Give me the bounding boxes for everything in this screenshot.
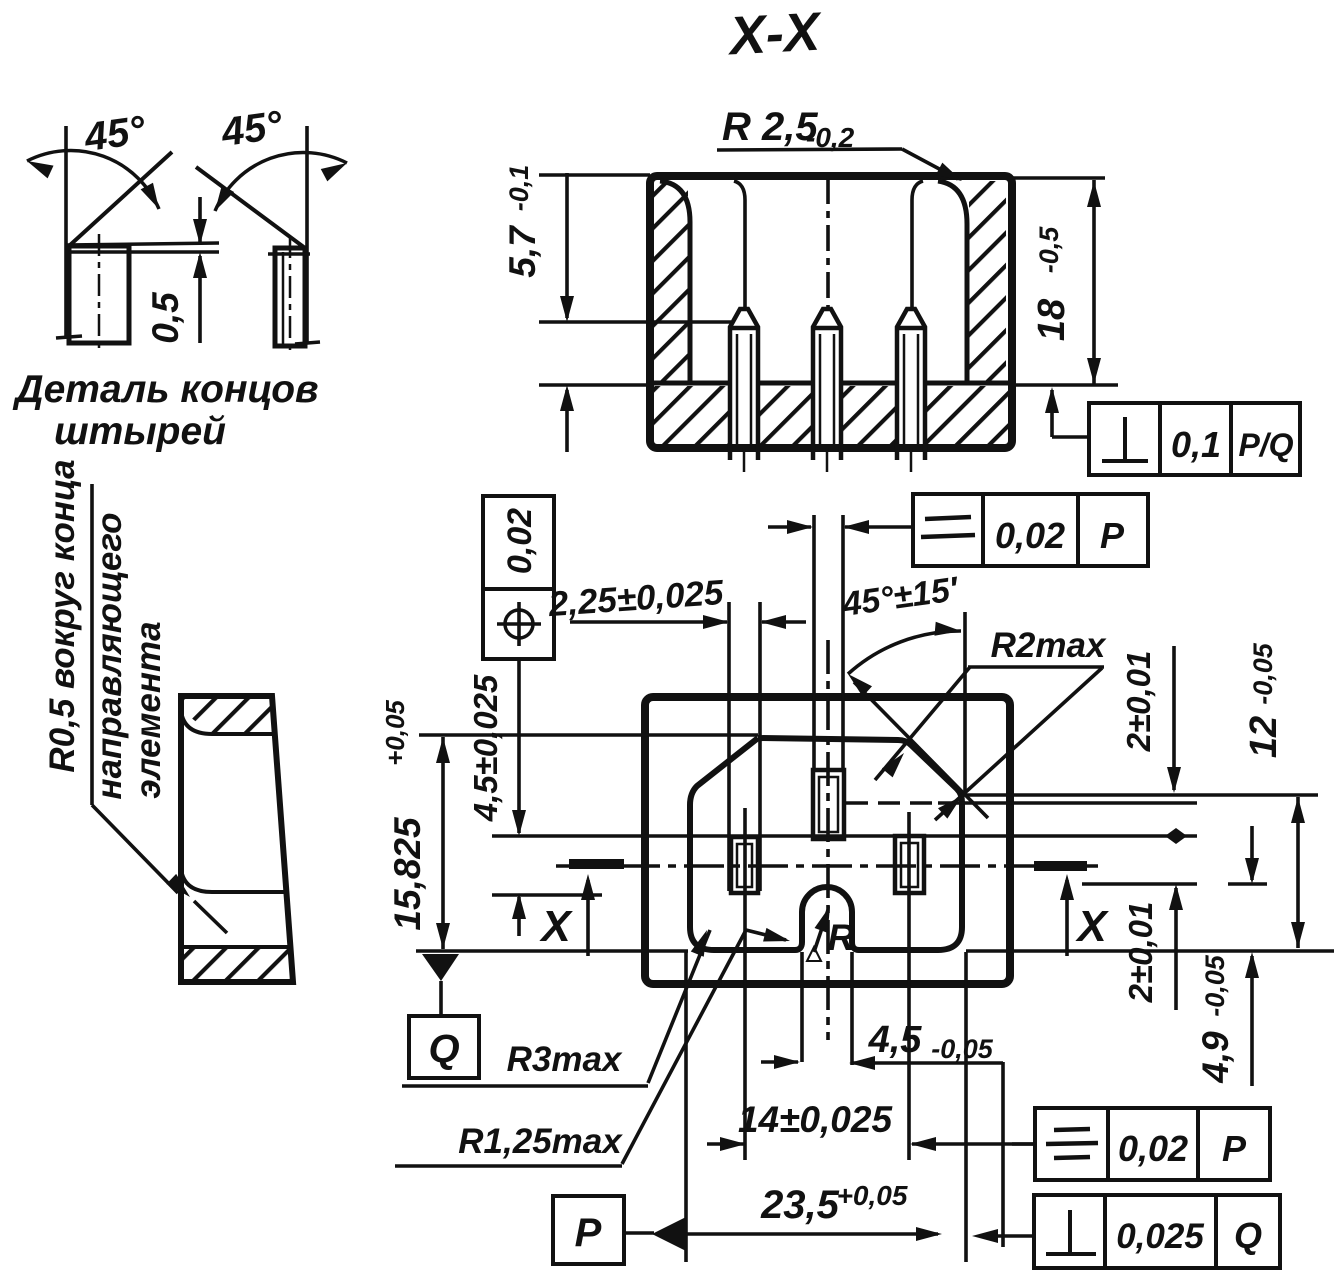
svg-text:23,5: 23,5 — [760, 1183, 840, 1227]
extension h corner level — [962, 793, 1318, 797]
pin 3 axis below — [910, 448, 913, 472]
extension h cavity bottom right — [966, 949, 1334, 953]
pin 2 white body — [813, 308, 842, 462]
leader shelf — [90, 484, 94, 805]
left chamfer line — [69, 152, 172, 246]
plan cavity outline — [690, 738, 962, 950]
svg-text:-0,05: -0,05 — [1248, 642, 1278, 705]
extension h cavity top — [419, 733, 758, 737]
R2max leader 2 — [935, 668, 1102, 820]
extension v chamfer corner — [963, 612, 967, 792]
extension v outer right below — [1001, 1062, 1005, 1247]
vertical axis dash-dot — [826, 640, 830, 1040]
section X-X housing hatch left wall — [654, 181, 688, 381]
svg-text:0,02: 0,02 — [501, 508, 539, 574]
svg-text:0,1: 0,1 — [1171, 424, 1221, 465]
label R2,5-0,2 — [717, 105, 965, 187]
svg-text:Q: Q — [1234, 1215, 1262, 1256]
dimension 18-0,5 — [1031, 180, 1101, 385]
pin 3 (section) — [897, 309, 925, 460]
svg-text:4,5: 4,5 — [868, 1019, 923, 1061]
svg-text:0,025: 0,025 — [1116, 1217, 1204, 1256]
extension v pin1 right — [758, 602, 762, 891]
svg-text:-0,05: -0,05 — [1200, 954, 1230, 1017]
pin 1 axis below — [743, 448, 746, 472]
dimension pin2 width to frame — [768, 520, 913, 534]
svg-text:14±0,025: 14±0,025 — [738, 1099, 893, 1140]
extension v pin1 left — [727, 602, 731, 891]
svg-text:4,5±0,025: 4,5±0,025 — [467, 674, 504, 822]
middle line with R0,5 arc — [181, 869, 287, 892]
bottom tick right extension — [295, 342, 320, 344]
svg-text:X-X: X-X — [725, 2, 824, 67]
dimension 4,9-0,05 — [1195, 826, 1259, 1086]
svg-text:+0,05: +0,05 — [380, 700, 410, 766]
section housing outline — [650, 176, 1012, 448]
datum P box — [553, 1196, 624, 1264]
datum Q box — [409, 1016, 479, 1078]
left pin extension line — [64, 126, 68, 336]
diamond marker — [1165, 828, 1187, 844]
guiding element hatch top band — [184, 699, 273, 733]
svg-text:направляющего: направляющего — [90, 512, 129, 799]
svg-text:R2max: R2max — [991, 626, 1107, 665]
svg-text:2±0,01: 2±0,01 — [1120, 651, 1157, 753]
extension v pin1 axis below — [743, 808, 747, 1160]
angle dimension 45 +-15 — [848, 631, 961, 674]
pin 2 plan — [813, 770, 844, 839]
svg-text:P: P — [1222, 1128, 1247, 1169]
extension h bump top right — [1082, 882, 1197, 886]
svg-text:R: R — [828, 917, 855, 958]
bottom tick left extension — [56, 336, 82, 338]
right pin extension line — [305, 126, 309, 343]
svg-text:Q: Q — [428, 1027, 459, 1071]
plan outer body — [645, 697, 1010, 984]
right pin top face line — [268, 252, 310, 256]
frame perpendicular 0,025 Q bottom — [972, 1195, 1280, 1268]
extension v cavity right below — [964, 952, 968, 1262]
svg-text:X: X — [538, 902, 573, 951]
pin tip level line — [539, 320, 731, 324]
left pin body — [69, 246, 129, 343]
svg-text:элемента: элемента — [129, 621, 168, 798]
extension v cavity left below — [684, 952, 688, 1262]
svg-text:0,5: 0,5 — [145, 291, 186, 344]
section mark X right — [1034, 861, 1087, 871]
left 45 arc — [27, 151, 159, 209]
extension v pin2 left — [812, 515, 816, 772]
dimension 23,5 — [686, 1180, 942, 1241]
pin 2 (section) — [813, 309, 841, 460]
top band lower line with R0,5 arc — [181, 711, 274, 734]
section top edge extension right — [1012, 176, 1105, 180]
extension h bump top left — [492, 893, 602, 897]
tolerance frame parallel 0,02 P top — [913, 494, 1148, 566]
datum Q triangle — [422, 954, 459, 981]
R2max shelf — [968, 665, 1104, 669]
section left wall inner edge — [660, 181, 690, 383]
position tolerance frame 0,02 — [483, 496, 554, 659]
extension v pin2 right — [841, 515, 845, 772]
svg-text:-0,1: -0,1 — [504, 165, 534, 212]
guiding element outline — [181, 696, 293, 982]
dashed line corner level inner — [846, 801, 934, 805]
extension v pin3 axis below — [907, 812, 911, 1160]
section floor line — [652, 381, 1010, 386]
svg-text:P: P — [1100, 515, 1125, 556]
pin top face lines 0,5 — [66, 243, 219, 245]
dimension 2+-0,01 lower — [1122, 884, 1183, 1010]
svg-text:2±0,01: 2±0,01 — [1122, 902, 1159, 1004]
guide slot line right — [912, 181, 923, 308]
svg-text:R 2,5: R 2,5 — [722, 105, 818, 149]
dimension 12-0,05 — [1243, 642, 1305, 948]
R2max leader 1 — [875, 667, 970, 780]
extension h cavity bottom left — [416, 949, 688, 953]
extension h pin top level — [492, 834, 1197, 838]
svg-text:18: 18 — [1031, 298, 1073, 341]
dimension 0,5 — [145, 197, 207, 344]
right pin axis — [289, 236, 292, 354]
svg-text:0,02: 0,02 — [1118, 1128, 1188, 1169]
frame parallel 0,02 P bottom — [1012, 1108, 1270, 1180]
horizontal axis dash-dot — [556, 864, 1098, 868]
pin 1 (section) — [730, 309, 758, 460]
pin 2 axis below — [826, 448, 829, 472]
svg-text:Деталь концов: Деталь концов — [12, 368, 318, 411]
svg-text:12: 12 — [1243, 716, 1285, 758]
dimension 2+-0,01 upper — [1120, 646, 1181, 793]
right pin body — [275, 248, 305, 346]
svg-text:-0,05: -0,05 — [931, 1034, 994, 1064]
datum P triangle — [652, 1217, 686, 1251]
svg-text:P: P — [575, 1211, 602, 1255]
bottom band top line — [181, 945, 291, 949]
section X-X housing hatch floor — [654, 386, 1008, 444]
svg-text:R3max: R3max — [507, 1040, 623, 1079]
section X-X housing hatch right wall — [969, 181, 1006, 381]
section floor extension right — [1010, 383, 1118, 387]
pin 1 plan — [731, 837, 758, 893]
svg-text:45°: 45° — [81, 108, 149, 160]
guide slot line left — [734, 181, 745, 308]
svg-text:P/Q: P/Q — [1238, 427, 1293, 463]
svg-text:0,02: 0,02 — [995, 515, 1065, 556]
pin 3 plan — [895, 836, 924, 893]
svg-text:5,7: 5,7 — [502, 224, 543, 278]
extension v bump left below — [800, 952, 804, 1062]
dimension 15,825 — [380, 700, 450, 949]
center axis pin2 upper — [826, 178, 830, 308]
right 45 arc — [215, 153, 347, 211]
pin 1 white body — [730, 308, 759, 462]
dimension 14 — [707, 1099, 1035, 1151]
svg-text:45°: 45° — [218, 103, 286, 155]
section top edge extension left — [539, 173, 650, 177]
dimension 4,5 pins length — [467, 659, 526, 936]
chamfer construction line — [854, 682, 988, 818]
section right wall inner edge — [938, 181, 967, 383]
pin 3 white body — [897, 308, 926, 462]
svg-text:R1,25max: R1,25max — [458, 1122, 623, 1161]
right chamfer line — [196, 167, 305, 248]
label R at bump — [807, 947, 821, 961]
svg-text:X: X — [1074, 902, 1109, 951]
dimension 4,5-0,05 bump — [761, 1019, 1003, 1070]
pointer arrow inside — [194, 901, 227, 933]
section floor extension left — [539, 383, 652, 387]
dimension 2,25 — [546, 573, 806, 629]
left pin axis — [98, 234, 101, 351]
svg-text:-0,5: -0,5 — [1034, 226, 1064, 274]
svg-text:4,9: 4,9 — [1195, 1031, 1236, 1084]
dimension 5,7-0,1 — [502, 165, 574, 452]
extension v bump right below — [850, 952, 854, 1065]
tolerance frame perpendicularity 0,1 P/Q — [1045, 387, 1300, 475]
svg-text:R0,5 вокруг конца: R0,5 вокруг конца — [43, 459, 82, 772]
extension h corner level second — [938, 801, 1197, 805]
svg-text:15,825: 15,825 — [387, 816, 428, 931]
svg-text:+0,05: +0,05 — [837, 1180, 908, 1211]
section mark X left — [569, 859, 624, 869]
svg-text:штырей: штырей — [54, 410, 226, 453]
guiding element hatch bottom band — [184, 949, 292, 979]
leader diagonal — [92, 805, 178, 893]
right pin inner edge — [282, 252, 285, 344]
